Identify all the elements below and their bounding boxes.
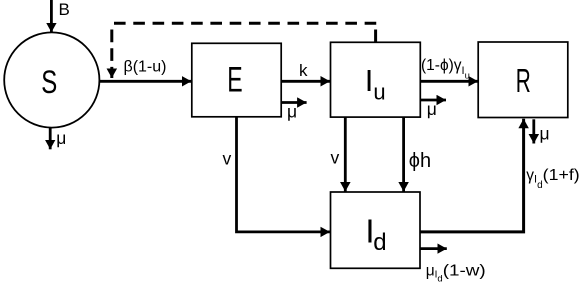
svg-text:R: R (516, 63, 531, 100)
wire mu death arrow from Iu (420, 99, 446, 102)
svg-text:d: d (373, 229, 386, 256)
svg-text:S: S (41, 64, 57, 100)
compartment Iu (box) (331, 42, 421, 117)
wire phi-h arrow Iu to Id (402, 117, 405, 191)
compartment E (box) (192, 43, 281, 117)
compartment S (circle) (4, 32, 99, 127)
wire dashed feedback vertical with arrow (110, 30, 113, 79)
wire (1-phi)gamma arrow Iu to R (420, 80, 478, 83)
svg-text:E: E (227, 60, 242, 99)
svg-text:v: v (331, 148, 340, 168)
svg-text:v: v (223, 149, 232, 169)
wire k arrow E to Iu (281, 80, 330, 83)
svg-text:μ: μ (56, 128, 66, 148)
compartment Id (box) (331, 192, 421, 268)
wire mu death arrow from E (281, 101, 306, 104)
wire v arrow Iu to Id (344, 117, 347, 191)
wire mu death arrow from S (49, 128, 52, 150)
wire B input arrow (50, 0, 53, 32)
svg-text:μ: μ (427, 99, 437, 119)
svg-text:β(1-u): β(1-u) (124, 59, 167, 76)
svg-text:u: u (373, 80, 385, 105)
wire gamma arrow Id to R (420, 119, 524, 232)
wire mu death arrow from R (532, 119, 535, 143)
svg-text:μ: μ (540, 124, 550, 144)
svg-text:B: B (59, 0, 70, 19)
svg-text:μ: μ (287, 101, 297, 121)
wire dashed feedback horizontal (114, 22, 376, 25)
compartment R (box) (478, 42, 568, 118)
wire stub into Iu top (374, 30, 377, 44)
wire S to E arrow (99, 80, 191, 83)
wire v arrow E to Id (237, 117, 330, 232)
svg-text:I: I (365, 63, 374, 98)
wire mu death arrow from Id (420, 247, 447, 250)
svg-text:k: k (299, 61, 308, 80)
svg-text:ϕh: ϕh (409, 150, 431, 172)
